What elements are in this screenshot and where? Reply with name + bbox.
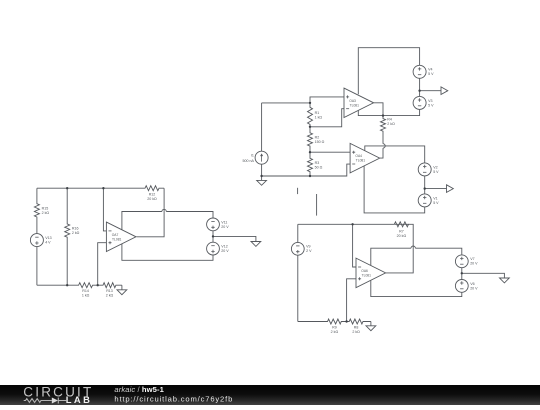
svg-text:2 V: 2 V [306,249,312,253]
svg-text:5 V: 5 V [433,201,439,205]
svg-text:OA4: OA4 [355,154,362,158]
svg-text:20 V: 20 V [221,249,229,253]
svg-text:I1: I1 [251,153,254,157]
svg-text:http://circuitlab.com/c76y2fb: http://circuitlab.com/c76y2fb [114,394,233,403]
svg-text:150 Ω: 150 Ω [315,140,325,144]
svg-text:OA3: OA3 [349,99,356,103]
svg-text:V6: V6 [470,282,474,286]
svg-text:V4: V4 [428,68,432,72]
svg-text:5 V: 5 V [428,103,434,107]
svg-text:OA7: OA7 [112,233,119,237]
svg-text:V7: V7 [470,257,474,261]
svg-text:R7: R7 [399,229,404,233]
svg-text:V12: V12 [221,245,227,249]
svg-text:20 kΩ: 20 kΩ [147,197,157,201]
svg-text:V9: V9 [306,245,310,249]
svg-text:TL081: TL081 [112,237,122,241]
svg-text:5 V: 5 V [428,72,434,76]
svg-text:V2: V2 [433,165,437,169]
svg-text:R16: R16 [72,226,79,230]
svg-text:TL081: TL081 [350,103,360,107]
svg-text:R3: R3 [315,161,320,165]
svg-text:V13: V13 [45,236,51,240]
svg-text:R9: R9 [332,325,337,329]
svg-text:2 kΩ: 2 kΩ [331,330,339,334]
svg-text:V3: V3 [428,99,432,103]
svg-text:2 kΩ: 2 kΩ [387,122,395,126]
svg-text:R4: R4 [387,118,392,122]
svg-text:OA6: OA6 [361,269,368,273]
svg-text:50 Ω: 50 Ω [315,166,323,170]
svg-text:R14: R14 [82,289,89,293]
svg-text:20 V: 20 V [221,225,229,229]
svg-text:20 V: 20 V [470,286,478,290]
svg-text:R1: R1 [315,111,320,115]
svg-text:4 V: 4 V [45,241,51,245]
svg-text:2 kΩ: 2 kΩ [352,330,360,334]
svg-text:arkaic / hw5-1: arkaic / hw5-1 [114,385,164,394]
svg-text:R13: R13 [106,289,113,293]
svg-text:TL081: TL081 [362,274,372,278]
svg-text:500 nA: 500 nA [243,159,255,163]
svg-text:TL081: TL081 [356,159,366,163]
svg-text:R8: R8 [354,325,359,329]
svg-text:5 V: 5 V [433,170,439,174]
svg-text:R2: R2 [315,136,320,140]
svg-text:LAB: LAB [66,394,92,405]
svg-text:1 kΩ: 1 kΩ [82,293,90,297]
svg-text:V1: V1 [433,196,437,200]
svg-text:20 V: 20 V [470,262,478,266]
svg-text:V11: V11 [221,220,227,224]
svg-text:R15: R15 [42,207,49,211]
svg-text:20 kΩ: 20 kΩ [397,234,407,238]
svg-text:2 kΩ: 2 kΩ [72,231,80,235]
svg-text:2 kΩ: 2 kΩ [106,293,114,297]
svg-text:1 kΩ: 1 kΩ [315,116,323,120]
svg-text:R12: R12 [149,193,156,197]
svg-text:2 kΩ: 2 kΩ [42,211,50,215]
